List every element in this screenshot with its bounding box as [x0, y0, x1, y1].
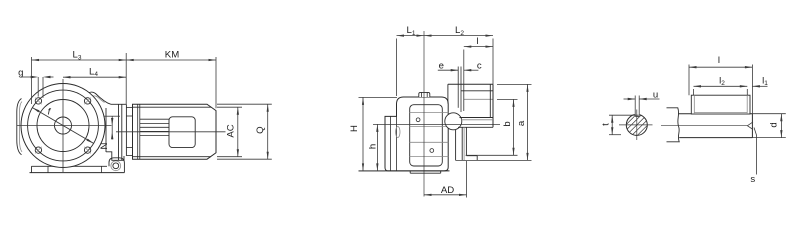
cross-section centerlines — [619, 124, 653, 126]
shaft side view: shaft body — [679, 113, 753, 115]
shaft side view: centerline — [661, 125, 748, 127]
middle view: lower bracket — [455, 130, 457, 160]
left view: flange outer circle — [21, 84, 105, 168]
svg-text:AC: AC — [226, 124, 237, 137]
dimension d — [780, 114, 782, 138]
dimension a — [527, 84, 529, 160]
middle view: hub shoulder boss circle — [445, 113, 462, 130]
left view: shaft bore circle — [55, 117, 72, 134]
left view: flange rim circle — [28, 90, 99, 161]
left view: casing left wall — [17, 99, 22, 155]
left view: bolt holes — [35, 98, 41, 104]
dimension KM — [126, 59, 216, 61]
middle view: body outline — [385, 97, 448, 171]
dimension H — [362, 97, 364, 170]
svg-text:Q: Q — [255, 126, 266, 133]
dimension t — [611, 115, 613, 135]
svg-text:s: s — [750, 174, 755, 185]
svg-text:H: H — [349, 125, 360, 132]
svg-text:t: t — [601, 123, 612, 126]
dimension AD — [424, 194, 467, 196]
left view: motor inner top/bottom lines — [133, 106, 212, 108]
dimension b — [513, 99, 515, 155]
L3 left extension line — [31, 57, 33, 104]
left view: bottom-right lug — [109, 158, 124, 173]
middle view: hub lower band — [460, 117, 494, 119]
svg-text:a: a — [516, 120, 527, 126]
extension lines for L1 L2 l — [396, 39, 398, 97]
left view: motor axis centerline — [116, 131, 226, 133]
extension lines for l l2 l1 — [688, 65, 690, 96]
svg-text:l: l — [476, 36, 478, 47]
left view: flange face circle — [37, 100, 89, 152]
svg-text:c: c — [477, 61, 482, 72]
middle view: lower plug circle — [430, 149, 434, 153]
svg-text:e: e — [439, 61, 444, 72]
dimension l (key/shaft) — [689, 66, 752, 68]
left view: casing verticals between flange and motor — [105, 108, 107, 152]
dimension N: axis offset — [111, 116, 113, 139]
middle view: internal horizontal lines — [410, 112, 449, 114]
dimension l1 — [752, 85, 760, 87]
dimension AC — [237, 107, 239, 157]
svg-text:AD: AD — [441, 185, 454, 196]
left view: motor terminal block rounded square — [169, 117, 195, 148]
middle view: upper plug circle — [416, 118, 420, 122]
keyway slot cutout — [635, 112, 640, 117]
dimension Q — [267, 104, 269, 159]
svg-text:d: d — [768, 122, 779, 127]
dimension L3 — [32, 59, 127, 61]
left view: bottom-right lug hole — [113, 163, 119, 169]
dimension g: leader, arrows and extension lines — [21, 76, 34, 78]
middle view: output axis line — [373, 123, 500, 125]
left view: motor fin lines — [140, 118, 169, 120]
left view: base plate — [32, 165, 108, 167]
left view: motor left joint verticals — [137, 104, 139, 159]
svg-text:N: N — [99, 142, 110, 149]
dimension f: bolt circle diameter line — [32, 108, 93, 144]
dimension c — [464, 69, 472, 71]
leader line s — [754, 128, 757, 175]
left view: motor body outline — [133, 104, 217, 159]
left view: adapter bottom step — [106, 152, 124, 161]
dimension l (hub length) — [464, 46, 493, 48]
middle view: top cap — [419, 92, 430, 97]
dimension e — [438, 69, 458, 71]
keyway slot walls and bottom — [634, 96, 636, 117]
svg-text:l: l — [718, 55, 720, 66]
shaft side view: break block — [667, 108, 680, 142]
shaft end center mark — [747, 122, 753, 130]
dimension L1 — [397, 35, 425, 37]
middle view: inner rounded rect — [410, 105, 443, 166]
svg-text:h: h — [367, 144, 378, 149]
dimension h — [376, 124, 378, 170]
dimension L2 — [424, 35, 493, 37]
dimension L4 — [63, 76, 126, 78]
middle view: vertical centerline — [423, 31, 425, 197]
dimension l2 — [694, 85, 748, 87]
KM right extension line — [215, 57, 217, 108]
middle view: foot pad — [409, 171, 411, 173]
dimension u — [624, 98, 635, 100]
svg-text:b: b — [502, 121, 513, 126]
left view: motor flange plate — [125, 104, 127, 156]
svg-text:g: g — [18, 68, 23, 79]
middle view: left plate inner line — [390, 116, 392, 170]
left view: top-right lug hump — [86, 92, 112, 104]
middle view: base bottom line — [359, 170, 450, 172]
svg-text:KM: KM — [165, 50, 179, 61]
svg-text:u: u — [653, 89, 658, 100]
L3/KM shared extension line — [125, 53, 127, 104]
middle view: input boss ellipse — [396, 127, 400, 138]
key on shaft — [691, 95, 750, 114]
left view: center crosshair — [17, 125, 112, 127]
middle view: hollow shaft hub — [448, 83, 493, 85]
shaft cross-section circle — [626, 114, 647, 135]
